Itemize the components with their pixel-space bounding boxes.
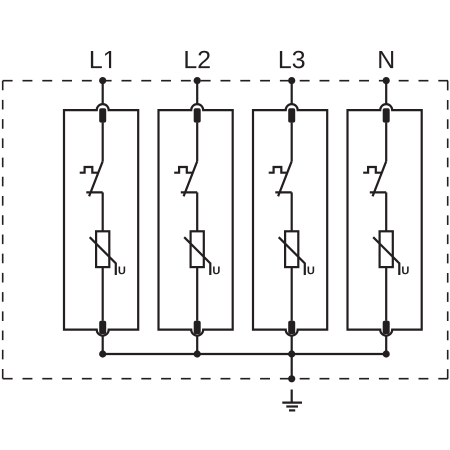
junction dot PE bus 2 <box>194 350 201 357</box>
junction dot L1 on enclosure border <box>99 77 106 84</box>
terminal X1 module M3 (top pill) <box>288 108 295 122</box>
wire disconnector to varistor M2 <box>196 192 198 231</box>
wire disconnector to varistor M1 <box>102 192 104 231</box>
wire L3 entry to terminal <box>291 81 293 105</box>
wire varistor to bottom terminal M4 <box>385 267 387 321</box>
wire varistor to bottom terminal M1 <box>102 267 104 321</box>
junction dot PE bus 3 <box>288 350 295 357</box>
wire L1 entry to terminal <box>102 81 104 105</box>
wire bottom terminal to PE bus M3 <box>291 336 293 354</box>
module box M1 with terminal bumps <box>64 104 138 336</box>
terminal X1 module M2 (top pill) <box>194 108 201 122</box>
terminal X2 module M3 (bottom pill) <box>288 321 295 334</box>
wire PE bus to enclosure border <box>291 354 293 379</box>
wire bottom terminal to PE bus M1 <box>102 336 104 354</box>
enclosure dashed border bottom <box>3 378 448 380</box>
value label U of varistor RV2 <box>213 267 220 275</box>
ground PE symbol <box>282 390 302 411</box>
terminal X2 module M2 (bottom pill) <box>194 321 201 334</box>
wire disconnector to varistor M4 <box>385 192 387 231</box>
wire terminal to disconnector M3 <box>291 123 293 162</box>
enclosure dashed border left <box>2 81 4 379</box>
terminal X1 module M4 (top pill) <box>383 108 390 122</box>
node L1 label <box>91 51 111 68</box>
varistor RV4 <box>373 231 399 275</box>
wire terminal to disconnector M1 <box>102 123 104 162</box>
wire bottom terminal to PE bus M4 <box>385 336 387 354</box>
wire bottom terminal to PE bus M2 <box>196 336 198 354</box>
thermal disconnector switch F3 <box>269 161 292 196</box>
terminal X2 module M1 (bottom pill) <box>99 321 106 334</box>
junction dot L2 on enclosure border <box>194 77 201 84</box>
node N label <box>379 51 393 68</box>
wire terminal to disconnector M4 <box>385 123 387 162</box>
varistor RV3 <box>279 231 305 275</box>
wire varistor to bottom terminal M3 <box>291 267 293 321</box>
terminal X2 module M4 (bottom pill) <box>383 321 390 334</box>
value label U of varistor RV4 <box>402 267 409 275</box>
module box M4 with terminal bumps <box>348 104 422 336</box>
wire PE bus <box>103 353 387 355</box>
varistor RV2 <box>184 231 210 275</box>
junction dot N on enclosure border <box>383 77 390 84</box>
thermal disconnector switch F4 <box>363 161 386 196</box>
enclosure dashed border top <box>3 80 448 82</box>
junction dot L3 on enclosure border <box>288 77 295 84</box>
node L2 label <box>185 51 209 68</box>
wire terminal to disconnector M2 <box>196 123 198 162</box>
wire varistor to bottom terminal M2 <box>196 267 198 321</box>
value label U of varistor RV1 <box>119 267 126 275</box>
junction dot PE on enclosure border <box>288 375 295 382</box>
junction dot PE bus 1 <box>99 350 106 357</box>
enclosure dashed border right <box>447 81 449 379</box>
terminal X1 module M1 (top pill) <box>99 108 106 122</box>
module box M3 with terminal bumps <box>253 104 327 336</box>
thermal disconnector switch F2 <box>174 161 197 196</box>
wire L2 entry to terminal <box>196 81 198 105</box>
junction dot PE bus 4 <box>383 350 390 357</box>
varistor RV1 <box>90 231 116 275</box>
thermal disconnector switch F1 <box>80 161 103 196</box>
node L3 label <box>280 51 305 69</box>
value label U of varistor RV3 <box>308 267 315 275</box>
module box M2 with terminal bumps <box>159 104 233 336</box>
wire disconnector to varistor M3 <box>291 192 293 231</box>
wire N entry to terminal <box>385 81 387 105</box>
